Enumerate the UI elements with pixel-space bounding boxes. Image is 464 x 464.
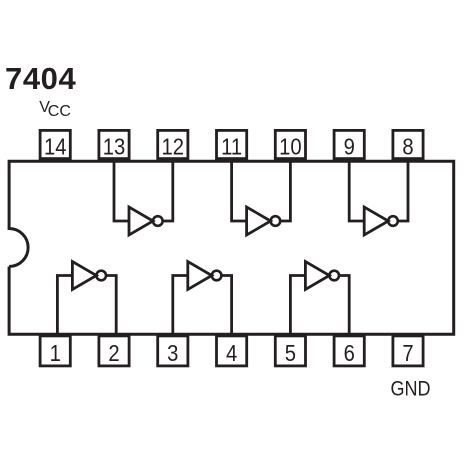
svg-text:12: 12 [162, 133, 185, 160]
pin 9 box (4A input) [334, 130, 364, 159]
wire U1E output to pin 10 [280, 161, 290, 221]
wire pin 13 to U1F input [114, 161, 129, 221]
pin 14 box (VCC) [40, 130, 70, 159]
pin 6 box (3Y output) [334, 336, 364, 366]
pin 3 box (2A input) [158, 336, 188, 366]
pin 4 box (2Y output) [217, 336, 247, 366]
svg-text:3: 3 [167, 340, 178, 367]
svg-text:4: 4 [226, 340, 237, 367]
wire pin 1 to U1A input [57, 276, 72, 335]
inverter U1E (pins 11 to 10) [247, 207, 281, 235]
pin 5 box (3A input) [275, 336, 305, 366]
wire pin 9 to U1D input [349, 161, 364, 221]
pin 1 box (1A input) [40, 336, 70, 366]
svg-text:2: 2 [108, 340, 119, 367]
svg-text:7404: 7404 [5, 61, 77, 96]
svg-text:13: 13 [103, 133, 126, 160]
wire pin 11 to U1E input [232, 161, 247, 221]
wire U1A output to pin 2 [106, 276, 116, 335]
pin 8 box (4Y output) [393, 130, 423, 159]
inverter U1D (pins 9 to 8) [364, 207, 398, 235]
svg-text:9: 9 [344, 133, 355, 160]
pin 7 box (GND) [393, 336, 423, 366]
pin 13 box (6A input) [99, 130, 129, 159]
inverter U1A (pins 1 to 2) [72, 262, 106, 290]
wire pin 3 to U1B input [173, 276, 188, 335]
wire U1F output to pin 12 [163, 161, 173, 221]
svg-text:11: 11 [221, 133, 242, 160]
pin 11 box (5A input) [217, 130, 247, 159]
ground label GND (below pin 7) [390, 377, 430, 401]
svg-text:GND: GND [390, 377, 430, 401]
inverter U1C (pins 5 to 6) [305, 262, 339, 290]
svg-text:8: 8 [402, 133, 413, 160]
title label 7404 [5, 61, 77, 96]
wire pin 5 to U1C input [290, 276, 305, 335]
pin 12 box (6Y output) [158, 130, 188, 159]
svg-text:7: 7 [402, 340, 413, 367]
inverter U1B (pins 3 to 4) [188, 262, 222, 290]
wire U1B output to pin 4 [221, 276, 231, 335]
pin 10 box (5Y output) [275, 130, 305, 159]
wire U1D output to pin 8 [398, 161, 408, 221]
power label VCC (above pin 14) [39, 99, 71, 120]
IC body U1 (7404 DIP-14 outline with index notch) [9, 161, 454, 334]
wire U1C output to pin 6 [339, 276, 349, 335]
svg-text:6: 6 [344, 340, 355, 367]
svg-text:5: 5 [285, 340, 296, 367]
pin 2 box (1Y output) [99, 336, 129, 366]
svg-text:10: 10 [279, 133, 302, 160]
svg-text:CC: CC [48, 103, 71, 120]
svg-text:14: 14 [44, 133, 67, 160]
svg-text:1: 1 [50, 340, 61, 367]
inverter U1F (pins 13 to 12) [129, 207, 163, 235]
